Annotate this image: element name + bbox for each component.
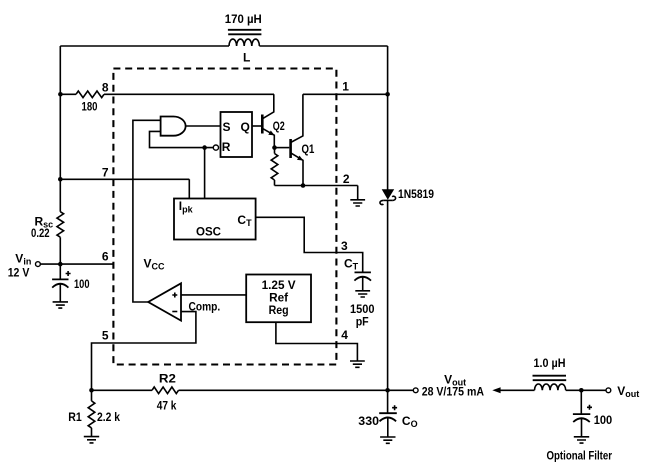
wire AND output to S (186, 125, 221, 127)
resistor R2 47 k (152, 387, 179, 394)
IC dashed box MC34063 (113, 69, 336, 365)
svg-text:2: 2 (343, 172, 350, 186)
bottom output wire (92, 389, 414, 391)
pin 6 wire (40, 263, 113, 265)
wire left rail (59, 46, 61, 264)
pin 2 wire (275, 185, 358, 187)
svg-text:170 µH: 170 µH (225, 12, 262, 26)
wire filter inductor to Vout terminal (566, 389, 606, 391)
svg-text:Reg: Reg (269, 303, 289, 317)
svg-text:R2: R2 (159, 372, 176, 386)
svg-text:R: R (222, 140, 231, 154)
Ref Reg box 1.25 V (246, 275, 311, 323)
svg-text:1: 1 (342, 80, 349, 94)
svg-text:4: 4 (341, 328, 348, 342)
wire R-junction down to Ipk (204, 148, 206, 199)
svg-text:47 k: 47 k (157, 399, 177, 413)
right rail wire (387, 46, 389, 390)
capacitor CO 330 (379, 390, 397, 437)
svg-text:1.0 µH: 1.0 µH (534, 356, 566, 370)
ground (filter cap) (574, 437, 589, 443)
pin 7 wire (60, 179, 189, 198)
resistor 180 (76, 91, 104, 98)
node dot rail/pin8 (58, 92, 63, 97)
node dot rail/pin7 (58, 177, 63, 182)
resistor R1 2.2 k (88, 401, 95, 428)
wire AND input 2 to R bubble (150, 131, 214, 147)
resistor Q2 emitter (271, 148, 278, 186)
ground (CO) (380, 437, 395, 443)
ground (CT cap) (355, 291, 370, 297)
comparator plus sign (172, 293, 177, 298)
wire Q1 base (275, 147, 290, 149)
comparator (148, 283, 181, 320)
svg-text:28 V/175 mA: 28 V/175 mA (422, 385, 485, 399)
svg-text:6: 6 (102, 250, 109, 264)
ground (pin 2) (350, 186, 365, 207)
svg-text:330: 330 (358, 414, 379, 428)
Ipk/OSC box (174, 199, 256, 240)
svg-text:3: 3 (341, 239, 348, 253)
ground (R1) (84, 428, 99, 443)
node dot Q1 emitter (301, 183, 306, 188)
comparator minus sign (172, 311, 177, 313)
wire top rail from node Vin-rail to inductor L (60, 45, 229, 47)
svg-text:L: L (243, 51, 250, 65)
inductor L 170 uH (228, 30, 262, 46)
R inversion bubble (213, 145, 218, 150)
node dot filter junction (579, 388, 584, 393)
svg-text:pF: pF (356, 315, 369, 329)
terminal Vin (36, 262, 41, 267)
capacitor 100 (input) (52, 264, 71, 302)
terminal Vout filter (606, 388, 611, 393)
svg-text:Q: Q (241, 120, 250, 134)
node dot Q2 emitter / Q1 base (272, 145, 277, 150)
svg-text:5: 5 (102, 329, 109, 343)
svg-text:100: 100 (74, 277, 90, 291)
latch U1b S-R (221, 112, 253, 157)
wire top rail from L to right rail (259, 45, 387, 47)
svg-text:7: 7 (102, 166, 109, 180)
svg-text:100: 100 (594, 413, 613, 427)
svg-text:180: 180 (82, 100, 98, 114)
wire Q output to Q2 base (252, 125, 261, 127)
wire arrow to filter inductor (499, 389, 535, 391)
svg-text:2.2 k: 2.2 k (97, 410, 120, 424)
diode 1N5819 (380, 189, 396, 204)
svg-text:12 V: 12 V (8, 266, 30, 280)
wire comparator - to pin 5 to R1/R2 node (92, 312, 196, 391)
resistor Rsc 0.22 (57, 212, 64, 238)
terminal Vout main (413, 388, 418, 393)
node dot R1/R2 (89, 388, 94, 393)
node dot Vin junction (58, 262, 63, 267)
svg-text:S: S (223, 120, 231, 134)
pin 8 wire (60, 93, 274, 95)
pin 4 wire (276, 322, 358, 361)
pin 1 wire (303, 93, 388, 95)
ground (pin 4) (350, 361, 365, 367)
node dot right rail/pin1 (385, 92, 390, 97)
svg-text:R1: R1 (68, 410, 82, 424)
svg-text:0.22: 0.22 (31, 226, 50, 240)
svg-text:8: 8 (102, 81, 109, 95)
wire comparator output to AND input 1 (133, 120, 161, 302)
pin 3 wire (256, 217, 363, 272)
svg-text:Q2: Q2 (273, 119, 285, 133)
wire comparator + to Ref Reg (181, 294, 246, 296)
node dot R-wire junction (202, 145, 207, 150)
ground (input cap) (53, 302, 68, 308)
inductor 1.0 uH filter (533, 376, 567, 391)
svg-text:Q1: Q1 (302, 142, 315, 156)
arrow to filter (492, 387, 500, 393)
capacitor CT 1500 pF (354, 272, 371, 290)
node dot output junction (385, 388, 390, 393)
svg-text:OSC: OSC (196, 225, 221, 239)
transistor Q1 (291, 94, 304, 185)
svg-text:Optional Filter: Optional Filter (547, 449, 613, 463)
transistor Q2 (262, 94, 274, 147)
capacitor 100 (filter) (573, 390, 592, 437)
AND gate U1a (161, 117, 186, 136)
svg-text:1N5819: 1N5819 (398, 187, 434, 201)
